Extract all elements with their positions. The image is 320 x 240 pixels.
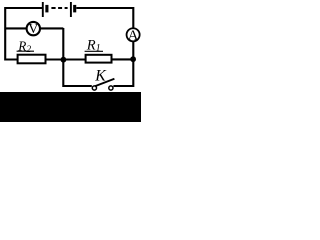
svg-text:V: V — [28, 22, 38, 37]
label R1 with underline — [85, 37, 103, 54]
resistor R2 — [18, 55, 46, 64]
resistor R1 — [86, 55, 112, 63]
label R2 with underline — [17, 38, 34, 55]
voltmeter V — [27, 22, 40, 37]
switch K contacts and blade — [92, 79, 114, 90]
vertical wire to switch (left) — [63, 28, 92, 86]
node A junction dot — [61, 57, 67, 63]
wire top-left segment — [5, 8, 42, 60]
wire ammeter down to switch (right) — [113, 42, 133, 86]
node B junction dot — [130, 56, 136, 62]
wire top-right segment — [76, 8, 134, 28]
wire R1 to right — [112, 58, 134, 60]
wire voltmeter branch right — [40, 27, 63, 29]
wire R2 to R1 — [45, 58, 85, 60]
svg-text:R2: R2 — [17, 38, 31, 55]
wire voltmeter branch left — [5, 27, 26, 29]
svg-text:A: A — [128, 28, 139, 44]
ammeter A — [127, 28, 140, 44]
battery B1 (two cells with dashed continuation) — [43, 2, 75, 17]
black redaction bar — [0, 92, 141, 122]
